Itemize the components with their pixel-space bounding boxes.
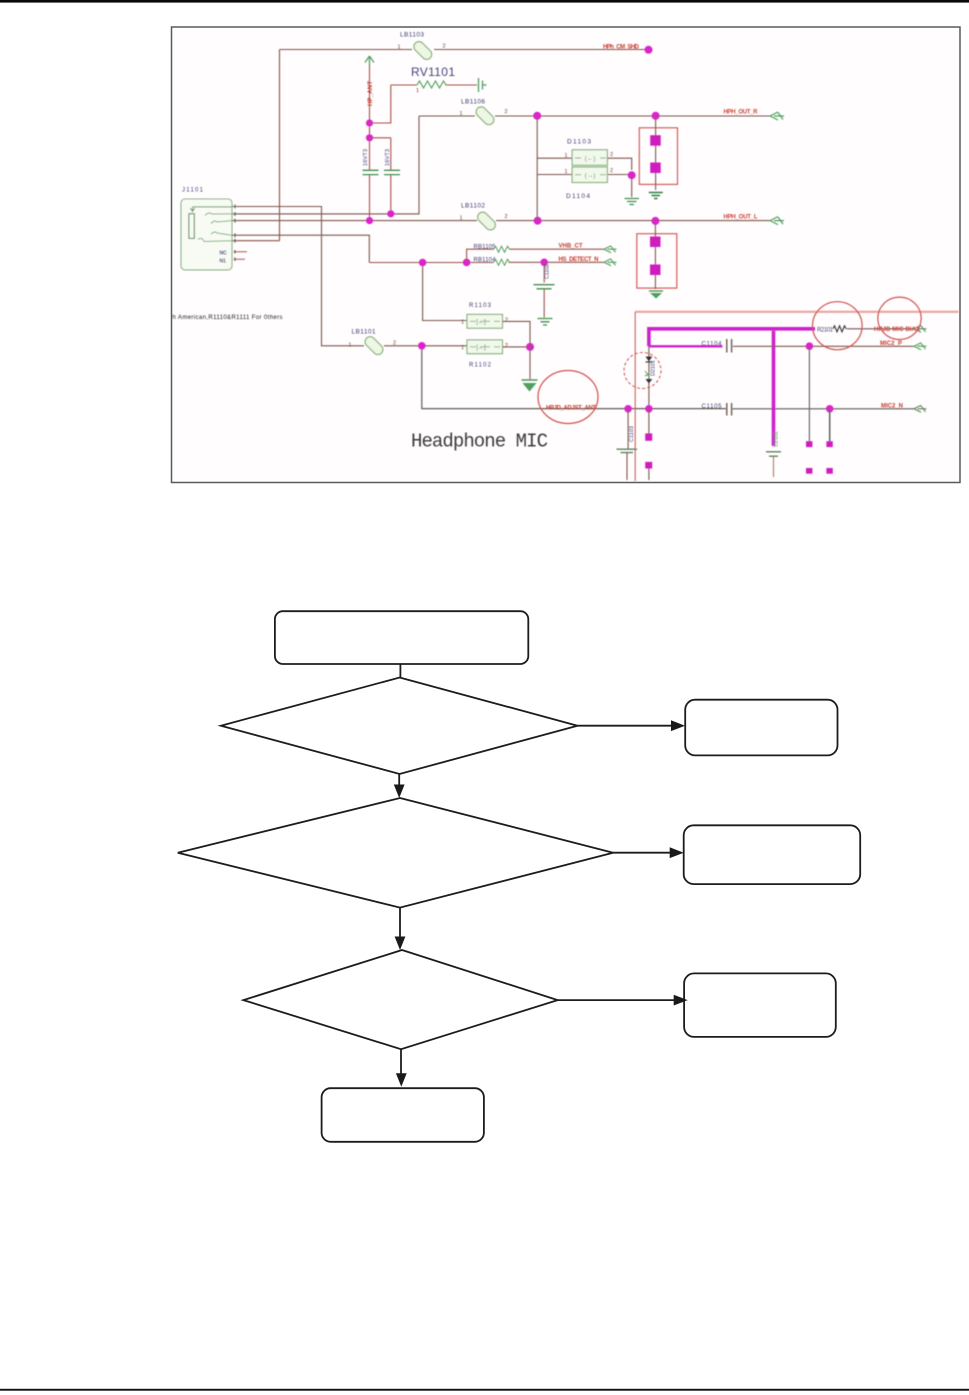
antenna arrow: [365, 56, 374, 66]
circle highlight HPJD_ADJST_ANT: [538, 371, 598, 424]
svg-text:2: 2: [505, 109, 508, 115]
svg-text:R2101: R2101: [817, 328, 834, 334]
node LB1102/D1104 junction: [534, 217, 542, 225]
svg-text:h American,R1110&R1111 For 0th: h American,R1110&R1111 For 0thers: [173, 315, 283, 321]
resistor R1102 box: [461, 340, 508, 369]
flow arrow down 3: [396, 1049, 407, 1087]
flow arrow down 1: [394, 774, 405, 798]
off-page arrow MIC2_P: [914, 343, 927, 350]
circle highlight MIC BIAS: [878, 297, 921, 339]
wire RB1104 row HS_DETECT_N: [369, 261, 604, 263]
flow arrow right 3: [558, 995, 688, 1006]
svg-text:HP_ANT: HP_ANT: [368, 81, 374, 106]
svg-text:1: 1: [460, 111, 463, 117]
wire connector pin3 LB1102 row HPH_OUT_L: [232, 220, 770, 222]
ground below R1102: [522, 380, 538, 392]
svg-text:LB1101: LB1101: [352, 329, 376, 336]
pad chain MIC2_N: [826, 409, 832, 474]
wire through jack box R: [655, 116, 657, 190]
svg-text:RB1104: RB1104: [474, 258, 497, 264]
inductor LB1102: [460, 203, 508, 232]
wire connector pin4 jog down: [232, 235, 369, 262]
capacitor C2102: [766, 431, 781, 477]
svg-text:[←]: [←]: [476, 320, 486, 326]
pad chain below D2101: [645, 409, 652, 480]
svg-text:RV1101: RV1101: [411, 65, 455, 79]
pad: [650, 163, 661, 174]
svg-text:2: 2: [505, 318, 508, 324]
svg-text:16VT3: 16VT3: [363, 149, 369, 166]
svg-text:1: 1: [565, 169, 568, 175]
magenta C1104 row: [649, 345, 723, 347]
flow diamond 1: [221, 678, 578, 775]
capacitor C1109 (right of pair): [370, 138, 401, 214]
circle highlight R2101: [813, 302, 863, 350]
svg-text:D1104: D1104: [566, 193, 590, 200]
jack shield box L lower (red): [637, 234, 677, 288]
node dot: [366, 134, 373, 141]
schematic frame: [172, 27, 961, 483]
ground below jack box R: [649, 193, 663, 199]
svg-text:2: 2: [505, 343, 508, 349]
ground below diodes: [625, 199, 640, 205]
flow end box: [322, 1088, 484, 1142]
svg-text:1: 1: [349, 343, 352, 349]
inductor LB1103: [398, 32, 446, 62]
flow side box 2: [684, 825, 861, 884]
node LB1106/D1103 junction: [533, 112, 541, 120]
wire connector pin1 over to LB1101: [232, 207, 467, 346]
svg-text:R1103: R1103: [469, 303, 492, 309]
node LB1102/jack2 junction: [651, 217, 659, 225]
jack shield box R upper (red): [639, 128, 677, 185]
resistor RV1101: [391, 65, 487, 94]
resistor R1103 box: [461, 303, 530, 347]
flow side box 3: [684, 973, 836, 1037]
svg-text:HPh_CM_SHD: HPh_CM_SHD: [603, 45, 640, 51]
node RB1105 tap: [463, 259, 471, 267]
node dot on HPH_OUT_L: [366, 217, 373, 224]
flow diamond 2: [178, 798, 613, 908]
node dot: [645, 405, 653, 413]
pad chain MIC2_P: [806, 346, 812, 474]
svg-text:LB1103: LB1103: [400, 32, 424, 39]
svg-text:C1103: C1103: [629, 426, 635, 442]
flow arrow down 2: [395, 908, 406, 950]
svg-text:[←]: [←]: [476, 345, 486, 351]
svg-text:HPJD_ADJST_ANT: HPJD_ADJST_ANT: [546, 406, 596, 412]
svg-text:1: 1: [461, 320, 464, 326]
capacitor C1104: [702, 339, 915, 353]
svg-text:1: 1: [416, 88, 419, 94]
svg-text:LB1102: LB1102: [461, 203, 485, 210]
bottom rule: [0, 1389, 969, 1391]
node dot on pin2 wire: [387, 210, 394, 217]
svg-text:1: 1: [461, 345, 464, 351]
node on RB1104 row: [419, 259, 427, 267]
svg-text:Headphone MIC: Headphone MIC: [411, 431, 548, 453]
svg-text:16VT3: 16VT3: [385, 149, 391, 166]
capacitor C1102 to ground: [534, 262, 555, 325]
inductor LB1106: [460, 99, 508, 127]
resistor RB1104: [474, 257, 617, 266]
pink bus line top of MIC block: [635, 311, 958, 313]
svg-text:N1: N1: [220, 259, 227, 265]
svg-text:C1102: C1102: [545, 264, 551, 279]
svg-text:(→): (→): [585, 173, 596, 180]
svg-text:1: 1: [460, 216, 463, 222]
wire junction to ground: [631, 175, 633, 197]
wire LB1106 row HPH_OUT_R: [419, 115, 770, 117]
resistor RB1105 branch VHB_CT: [467, 244, 617, 263]
wire R1102 out to gnd node: [503, 346, 531, 348]
node diode outputs junction: [628, 171, 636, 179]
wire jog to RV1101 branch: [370, 85, 391, 123]
svg-text:1: 1: [398, 45, 401, 51]
svg-text:2: 2: [610, 152, 613, 158]
flow connector line: [399, 664, 401, 678]
svg-text:VHB_CT: VHB_CT: [559, 244, 583, 250]
node dot: [366, 119, 373, 126]
thick magenta highlight net: [649, 329, 815, 347]
wire connector pin5: [232, 240, 280, 242]
svg-text:D2101: D2101: [651, 360, 657, 376]
wire R1103 feed: [423, 263, 467, 321]
svg-text:LB1106: LB1106: [461, 99, 485, 106]
red vertical long: [634, 312, 636, 481]
capacitor C1105: [702, 403, 732, 416]
wire vertical from top net to connector pin5: [279, 50, 281, 241]
pad: [650, 237, 661, 248]
svg-text:HPH_OUT_L: HPH_OUT_L: [724, 215, 758, 221]
node HPh_CM_SHD dot: [645, 46, 653, 54]
diode D1103: [537, 139, 632, 171]
flow diamond 3: [243, 950, 557, 1049]
wire vertical D1103/D1104 feed: [536, 116, 538, 221]
svg-text:1: 1: [565, 153, 568, 159]
wire through jack box L: [654, 221, 656, 289]
off-page arrow HPH_OUT_L: [770, 217, 784, 225]
svg-text:2: 2: [610, 168, 613, 174]
resistor R2101: [817, 325, 927, 333]
node MIC2_P: [806, 342, 814, 350]
off-page arrow MIC2_N: [914, 405, 927, 412]
flow arrow right 1: [578, 720, 686, 731]
svg-text:HPH_OUT_R: HPH_OUT_R: [724, 110, 759, 116]
off-page arrow HPH_OUT_R: [770, 112, 784, 120]
svg-text:(←): (←): [585, 156, 596, 163]
inductor LB1101: [349, 329, 397, 357]
node C1102 tap: [540, 259, 548, 267]
capacitor C1108 (left of pair): [363, 149, 379, 175]
svg-text:2: 2: [505, 214, 508, 220]
node LB1106/jack1 junction: [652, 112, 660, 120]
diode D2101 vertical: [645, 346, 657, 409]
capacitor C1103 branch: [617, 409, 638, 480]
pad: [650, 265, 661, 276]
circle highlight D2101 (dashed): [624, 353, 661, 389]
node R1102/R1103 junction: [526, 343, 534, 351]
svg-text:NC: NC: [220, 251, 228, 257]
svg-text:MIC2_N: MIC2_N: [881, 404, 903, 410]
node dot MIC2_N: [826, 405, 834, 413]
wire bottom HPJD net: [422, 346, 914, 409]
svg-text:MIC2_P: MIC2_P: [880, 341, 902, 347]
antenna HP_ANT vertical: [369, 56, 371, 221]
wire top net HPh_CM_SHD: [280, 49, 647, 51]
diode D1104: [537, 167, 632, 200]
svg-text:RB1105: RB1105: [474, 245, 497, 251]
node on LB1101 row: [418, 342, 426, 350]
svg-text:2: 2: [393, 341, 396, 347]
ground below jack box L: [649, 291, 663, 299]
flow start box: [275, 611, 528, 664]
flow side box 1: [685, 700, 837, 756]
top rule: [0, 0, 969, 3]
flow arrow right 2: [613, 847, 684, 858]
svg-text:C2102: C2102: [774, 431, 780, 447]
svg-text:C1105: C1105: [702, 404, 723, 410]
svg-text:R1102: R1102: [469, 363, 492, 369]
wire junction down to ground: [529, 347, 531, 379]
wire connector pin2 up to LB1106: [232, 116, 419, 214]
connector J1101: [181, 188, 247, 270]
svg-text:2: 2: [443, 44, 446, 50]
thick magenta branch down C2102: [772, 331, 776, 446]
svg-text:D1103: D1103: [567, 139, 591, 146]
pad: [650, 135, 661, 146]
svg-text:HS_DETECT_N: HS_DETECT_N: [559, 257, 599, 263]
svg-text:C1104: C1104: [702, 342, 723, 348]
node dot: [624, 405, 632, 413]
